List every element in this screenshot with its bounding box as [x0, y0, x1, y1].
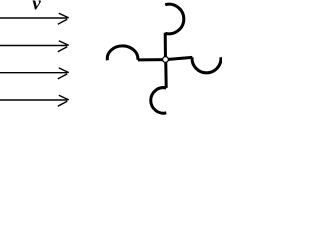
cup left (opens down) [107, 46, 138, 60]
wire: flow arrow 2 shaft [0, 45, 68, 47]
wire: flow arrow 1 shaft [0, 17, 68, 19]
hub [163, 57, 169, 63]
wire: flow arrow 4 shaft [0, 99, 68, 101]
cup top (opens left) [165, 4, 184, 34]
wire: flow arrow 3 shaft [0, 72, 68, 74]
flow arrow 3 head [58, 68, 69, 79]
flow arrow 2 head [58, 41, 69, 52]
arm bottom [164, 58, 168, 88]
arm top [164, 33, 167, 61]
svg-text:v: v [32, 0, 41, 14]
anemometer rotor [107, 4, 221, 113]
cup bottom (opens right) [151, 88, 167, 114]
arm right [164, 57, 192, 59]
flow arrow 4 head [58, 95, 69, 106]
cup right (opens up) [192, 57, 221, 73]
flow arrow 1 head [58, 13, 69, 24]
arm left [138, 58, 167, 61]
